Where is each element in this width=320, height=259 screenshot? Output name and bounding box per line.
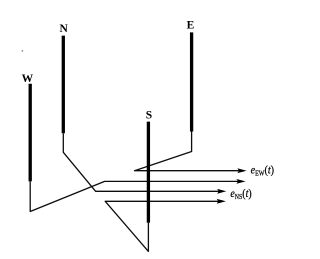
scan speck (22, 50, 24, 52)
svg-text:E: E (187, 20, 195, 32)
antenna element W (vertical monopole bar) (29, 84, 32, 182)
wire from W antenna: down-lead, long diagonal to node, then feedline 2 (e_EW pair) (30, 181, 239, 211)
svg-text:W: W (22, 73, 34, 85)
antenna element N (vertical monopole bar) (62, 36, 65, 134)
wire from E antenna: down-lead, diagonal to node, then top feedline (e_EW pair, line 1) (135, 132, 241, 171)
svg-text:S: S (146, 110, 152, 122)
arrowhead on feedline 4 (e_NS lower) (217, 199, 226, 204)
arrowhead on feedline 1 (e_EW upper) (237, 168, 246, 173)
wire from N antenna: down-lead, diagonal crossing W wire, then feedline 3 (e_NS pair) (63, 133, 219, 191)
output label e_EW(t) (251, 164, 275, 178)
arrowhead on feedline 2 (e_EW lower) (236, 179, 245, 184)
wire from S antenna: down-lead to bottom vertex, diagonal up-left, then feedline 4 (e_NS pair) (105, 201, 219, 251)
output label e_NS(t) (230, 187, 252, 201)
antenna element S (vertical monopole bar, drawn over the feedlines) (147, 122, 150, 223)
antenna element E (vertical monopole bar) (190, 32, 193, 131)
arrowhead on feedline 3 (e_NS upper) (217, 189, 226, 194)
svg-text:N: N (60, 23, 69, 35)
